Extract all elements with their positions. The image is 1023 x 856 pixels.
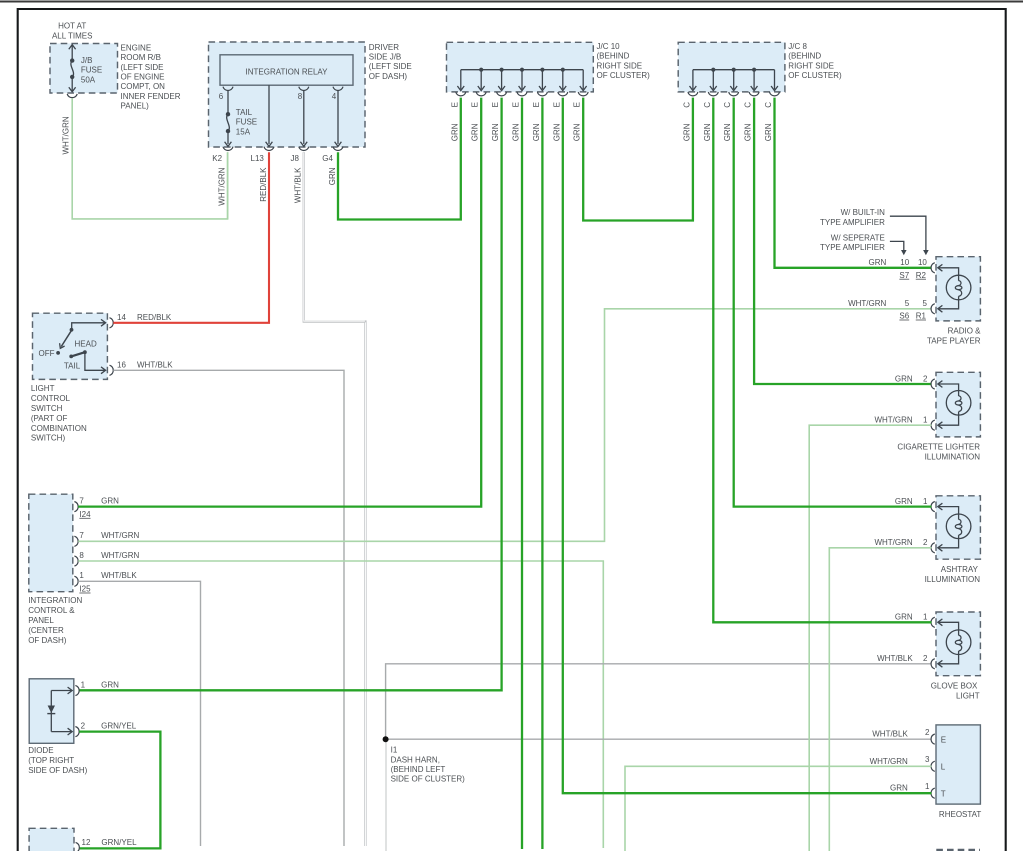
leader seperate to S7 [890,241,904,251]
svg-text:GRN/YEL: GRN/YEL [101,721,137,730]
svg-text:INTEGRATION RELAY: INTEGRATION RELAY [246,67,329,76]
svg-text:HOT AT: HOT AT [58,22,86,31]
svg-text:GRN: GRN [744,123,753,141]
svg-text:J8: J8 [290,154,299,163]
svg-text:RHEOSTAT: RHEOSTAT [939,810,981,819]
svg-text:S7: S7 [899,271,909,280]
glove internal wire pin 1 [939,622,959,635]
svg-text:DASH HARN,: DASH HARN, [391,755,440,764]
wire GRN J/C10 E4 off-page down [521,98,523,849]
wire GRN J/C10 E6 to rheostat T [563,98,932,794]
J/C 8 pin C5 [774,70,776,90]
connector K2 [223,147,233,151]
svg-text:ROOM R/B: ROOM R/B [121,53,161,62]
wire GRN J/C8 C2 to glove box light [713,98,931,623]
svg-text:WHT/GRN: WHT/GRN [101,551,139,560]
bus J/C 8 [693,69,775,71]
svg-text:2: 2 [923,538,928,547]
svg-text:GRN: GRN [101,680,119,689]
svg-text:WHT/BLK: WHT/BLK [101,571,137,580]
connector ashtray pin 2 [931,543,935,553]
svg-text:GRN: GRN [895,374,913,383]
svg-text:I24: I24 [79,510,91,519]
glove internal wire pin 2 [939,651,959,664]
svg-text:TAIL: TAIL [236,108,253,117]
wire GRN/YEL diode pin2 to connector pin 12 [79,732,160,849]
connector pin 7 [74,536,78,546]
svg-text:INNER FENDER: INNER FENDER [121,92,181,101]
svg-text:(LEFT SIDE: (LEFT SIDE [121,63,164,72]
svg-text:7: 7 [79,531,84,540]
svg-text:GRN: GRN [471,123,480,141]
J/C 10 pin E3 [500,68,504,72]
svg-text:R2: R2 [916,271,927,280]
junction connector J/C 8 box [678,42,785,92]
svg-text:1: 1 [923,613,928,622]
connector diode pin 1 [75,685,79,695]
connector cig pin 2 [931,379,935,389]
J/C 8 pin C2 [711,68,715,72]
svg-text:OF CLUSTER): OF CLUSTER) [597,71,651,80]
wire J/B fuse feed [71,45,73,61]
connector radio pin 5 [931,304,935,314]
svg-text:2: 2 [923,654,928,663]
svg-text:WHT/BLK: WHT/BLK [294,167,303,203]
svg-text:S6: S6 [899,312,909,321]
svg-text:2: 2 [923,374,928,383]
svg-text:15A: 15A [236,127,251,136]
radio internal wire pin 10 [939,268,959,281]
wire GRN J/C8 C5 to radio [775,98,932,268]
wire GRN from G4 to J/C 10 pin E1 [338,98,461,220]
svg-text:E: E [491,102,500,107]
wire relay pin 8 to J8 [303,91,305,144]
connector pin 14 [110,318,114,328]
svg-text:E: E [450,102,459,107]
svg-text:DIODE: DIODE [28,746,53,755]
svg-text:10: 10 [900,258,909,267]
svg-text:WHT/GRN: WHT/GRN [874,538,912,547]
node I1 junction [383,736,389,742]
svg-text:J/B: J/B [81,56,93,65]
connector L13 [264,147,274,151]
svg-text:I1: I1 [391,746,398,755]
svg-text:8: 8 [79,551,84,560]
svg-text:10: 10 [918,258,927,267]
svg-text:OF DASH): OF DASH) [369,72,408,81]
component CIGARETTE LIGHTER ILLUMINATION box [936,372,980,437]
svg-text:14: 14 [117,313,126,322]
connector rheostat pin 2 E [931,734,935,744]
connector cig pin 1 [931,420,935,430]
glove box bulb [946,630,971,655]
svg-text:C: C [703,102,712,108]
ashtray bulb [946,514,971,539]
svg-text:TYPE AMPLIFIER: TYPE AMPLIFIER [820,243,885,252]
svg-text:T: T [941,790,946,799]
svg-text:DRIVER: DRIVER [369,43,399,52]
svg-text:W/ BUILT-IN: W/ BUILT-IN [841,208,886,217]
wire GRN J/C8 C4 to cigarette lighter illumination [754,98,931,384]
wire GRN J/C10 E7 to J/C8 C1 [583,98,693,221]
svg-text:SIDE OF DASH): SIDE OF DASH) [28,766,87,775]
svg-text:W/ SEPERATE: W/ SEPERATE [831,233,885,242]
wire WHT/BLK junction I1 off-page down [385,739,387,851]
svg-text:(PART OF: (PART OF [31,414,68,423]
connector pin 16 [110,365,114,375]
svg-text:GRN: GRN [532,123,541,141]
svg-text:ENGINE: ENGINE [121,43,152,52]
wire tail fuse to K2 [227,131,229,144]
svg-text:50A: 50A [81,75,96,84]
svg-text:GRN: GRN [723,123,732,141]
fuse J/B FUSE 50A [70,58,74,62]
diode symbol [48,706,55,714]
svg-text:GRN: GRN [491,123,500,141]
svg-text:1: 1 [925,782,930,791]
svg-text:J/C 10: J/C 10 [597,42,621,51]
wire WHT/GRN fuse to relay K2 [72,98,227,219]
svg-text:I25: I25 [79,585,91,594]
svg-text:GRN: GRN [682,123,691,141]
svg-text:L13: L13 [251,154,265,163]
svg-text:C: C [764,102,773,108]
ashtray internal wire pin 1 [939,507,959,520]
svg-text:LIGHT: LIGHT [956,692,980,701]
svg-text:G4: G4 [322,154,333,163]
svg-text:L: L [941,763,946,772]
svg-text:GRN: GRN [869,258,887,267]
svg-text:2: 2 [925,728,930,737]
svg-text:E: E [573,102,582,107]
wire fuse to box bottom [71,77,73,91]
connector diode pin 2 [75,727,79,737]
svg-text:RIGHT SIDE: RIGHT SIDE [597,61,643,70]
svg-text:(BEHIND: (BEHIND [597,52,630,61]
connector box bottom right partial [936,849,980,851]
svg-text:WHT/GRN: WHT/GRN [874,416,912,425]
svg-text:(BEHIND LEFT: (BEHIND LEFT [391,765,446,774]
svg-text:TAPE PLAYER: TAPE PLAYER [927,336,981,345]
wire GRN J/C10 E5 off-page down [541,98,543,849]
wire WHT/BLK glove box to junction I1 [386,664,932,739]
J/C 10 pin E6 [561,68,565,72]
svg-text:12: 12 [82,838,91,847]
cig internal wire pin 1 [939,412,959,426]
svg-text:K2: K2 [212,154,222,163]
svg-text:COMBINATION: COMBINATION [31,424,87,433]
svg-text:COMPT, ON: COMPT, ON [121,82,166,91]
wire relay pin 4 to G4 [337,91,339,144]
svg-text:ILLUMINATION: ILLUMINATION [925,575,981,584]
J/C 10 pin E5 [540,68,544,72]
cig internal wire pin 2 [939,384,959,396]
radio internal wire pin 5 [939,296,959,309]
svg-text:WHT/GRN: WHT/GRN [870,757,908,766]
svg-text:WHT/BLK: WHT/BLK [137,361,173,370]
svg-text:E: E [512,102,521,107]
wire WHT/GRN from K2 [227,152,229,219]
svg-text:PANEL: PANEL [28,616,54,625]
svg-text:CIGARETTE LIGHTER: CIGARETTE LIGHTER [897,443,980,452]
radio bulb [946,275,971,300]
connector at J/B fuse output [67,94,77,98]
svg-text:CONTROL &: CONTROL & [28,606,75,615]
wire relay pin L13 internal [268,85,270,144]
svg-text:(CENTER: (CENTER [28,626,64,635]
svg-text:GRN/YEL: GRN/YEL [101,838,137,847]
J/C 8 pin C1 [692,70,694,90]
junction block DRIVER SIDE J/B box [209,42,366,147]
svg-text:RIGHT SIDE: RIGHT SIDE [788,61,834,70]
svg-text:E: E [471,102,480,107]
wire WHT/GRN rheostat L off-page [625,766,931,851]
svg-text:TAIL: TAIL [64,362,81,371]
wire WHT/BLK from pin 16 off-page down [113,370,344,846]
leader built-in to R2 [890,216,926,251]
svg-text:WHT/GRN: WHT/GRN [101,531,139,540]
connector J8 [299,147,309,151]
svg-text:WHT/BLK: WHT/BLK [872,730,908,739]
svg-text:PANEL): PANEL) [121,102,150,111]
wire WHT/BLK junction I1 to rheostat E [386,738,932,740]
svg-text:SIDE J/B: SIDE J/B [369,53,401,62]
svg-text:INTEGRATION: INTEGRATION [28,596,82,605]
svg-text:GRN: GRN [512,123,521,141]
J/C 10 pin E7 [582,70,584,90]
connector rheostat pin 3 L [931,761,935,771]
svg-text:CONTROL: CONTROL [31,394,71,403]
diode DIODE box [29,679,74,744]
relay pin 6 connector [223,87,233,91]
switch internal contact pin 14 [72,323,105,329]
svg-text:HEAD: HEAD [75,340,97,349]
connector glove pin 2 [931,659,935,669]
svg-text:E: E [941,735,946,744]
svg-text:(LEFT SIDE: (LEFT SIDE [369,62,412,71]
svg-text:C: C [723,102,732,108]
wire relay pin 6 to tail fuse [227,91,229,114]
connector glove pin 1 [931,617,935,627]
svg-text:WHT/GRN: WHT/GRN [217,167,226,205]
switch LIGHT CONTROL SWITCH box [33,313,108,379]
connector pin 1 I25 [74,576,78,586]
connector box bottom left [29,828,74,854]
connector G4 [333,147,343,151]
svg-text:SIDE OF CLUSTER): SIDE OF CLUSTER) [391,775,466,784]
svg-text:GRN: GRN [552,123,561,141]
svg-text:ILLUMINATION: ILLUMINATION [925,452,981,461]
svg-text:J/C 8: J/C 8 [788,42,807,51]
svg-text:FUSE: FUSE [81,66,102,75]
svg-text:1: 1 [923,497,928,506]
fuse TAIL FUSE 15A [226,112,230,116]
cigarette lighter bulb [946,391,971,416]
svg-text:TYPE AMPLIFIER: TYPE AMPLIFIER [820,218,885,227]
svg-text:WHT/GRN: WHT/GRN [62,116,71,154]
svg-text:1: 1 [79,571,84,580]
connector pin 8 [74,556,78,566]
svg-text:1: 1 [923,416,928,425]
svg-text:GRN: GRN [573,123,582,141]
svg-text:C: C [744,102,753,108]
svg-text:GRN: GRN [895,613,913,622]
svg-text:RED/BLK: RED/BLK [137,313,172,322]
switch lever TAIL [69,355,73,359]
connector radio pin 10 [931,263,935,273]
wire WHT/GRN ashtray pin2 off-page [829,548,931,851]
relay pin 8 connector [299,87,309,91]
junction block ENGINE ROOM R/B box [50,44,118,94]
J/C 10 pin E2 [479,68,483,72]
ashtray internal wire pin 2 [939,535,959,548]
wire RED/BLK from L13 to light control switch pin 14 [113,152,269,323]
J/C 10 pin E4 [520,68,524,72]
svg-text:FUSE: FUSE [236,118,257,127]
svg-text:4: 4 [332,92,337,101]
svg-text:GRN: GRN [895,497,913,506]
component RHEOSTAT box [936,725,980,804]
wire WHT/BLK from J8 down off-page [304,152,366,846]
component RADIO & TAPE PLAYER box [936,257,980,321]
svg-text:OF DASH): OF DASH) [28,636,67,645]
svg-text:6: 6 [219,92,224,101]
svg-text:ALL TIMES: ALL TIMES [52,31,92,40]
svg-text:WHT/GRN: WHT/GRN [848,299,886,308]
component INTEGRATION CONTROL & PANEL box [29,494,73,592]
svg-text:GRN: GRN [764,123,773,141]
svg-text:ASHTRAY: ASHTRAY [941,565,979,574]
svg-text:2: 2 [81,721,86,730]
svg-text:7: 7 [79,496,84,505]
top rule [0,1,1023,3]
diode internal wiring [50,691,52,732]
svg-text:GRN: GRN [450,123,459,141]
svg-text:R1: R1 [916,312,927,321]
svg-text:8: 8 [298,92,303,101]
svg-text:GRN: GRN [890,784,908,793]
switch lever OFF-HEAD [61,331,71,346]
connector pin 7 I24 [74,502,78,512]
J/C 10 pin E1 [460,70,462,90]
svg-text:OFF: OFF [39,349,55,358]
svg-text:5: 5 [922,299,927,308]
svg-text:E: E [552,102,561,107]
svg-text:RADIO &: RADIO & [948,327,982,336]
svg-text:LIGHT: LIGHT [31,384,55,393]
bus J/C 10 [461,69,583,71]
J/C 8 pin C4 [752,68,756,72]
svg-text:1: 1 [81,680,86,689]
svg-text:5: 5 [905,299,910,308]
wire WHT/GRN pin7 to radio pin 5 [78,309,931,542]
svg-text:E: E [532,102,541,107]
connector rheostat pin 1 T [931,788,935,798]
wire WHT/GRN pin8 off-page down [78,561,603,848]
svg-text:SWITCH: SWITCH [31,404,63,413]
wire GRN J/C10 E3 to diode pin 1 [79,98,501,691]
J/C 8 pin C3 [732,68,736,72]
junction connector J/C 10 box [447,42,594,92]
wire GRN J/C10 E2 to integration control panel I24 [78,98,481,507]
svg-text:GLOVE BOX: GLOVE BOX [931,682,978,691]
connector ashtray pin 1 [931,502,935,512]
svg-text:(BEHIND: (BEHIND [788,52,821,61]
wire WHT/GRN cig pin1 off-page [809,425,931,851]
svg-text:SWITCH): SWITCH) [31,434,66,443]
svg-text:C: C [682,102,691,108]
svg-text:16: 16 [117,361,126,370]
svg-text:RED/BLK: RED/BLK [259,167,268,202]
relay pin 4 connector [333,87,343,91]
svg-text:WHT/BLK: WHT/BLK [877,654,913,663]
component ASHTRAY ILLUMINATION box [936,496,980,559]
wire GRN J/C8 C3 to ashtray illumination [734,98,932,507]
svg-text:3: 3 [925,755,930,764]
svg-text:OF ENGINE: OF ENGINE [121,73,165,82]
svg-text:(TOP RIGHT: (TOP RIGHT [28,756,74,765]
svg-text:GRN: GRN [328,167,337,185]
relay INTEGRATION RELAY box [220,55,353,85]
wire WHT/BLK pin1 off-page down [78,581,200,846]
svg-text:GRN: GRN [101,496,119,505]
svg-text:GRN: GRN [703,123,712,141]
component GLOVE BOX LIGHT box [936,612,980,676]
connector pin 12 [76,842,80,852]
svg-text:OF CLUSTER): OF CLUSTER) [788,71,842,80]
